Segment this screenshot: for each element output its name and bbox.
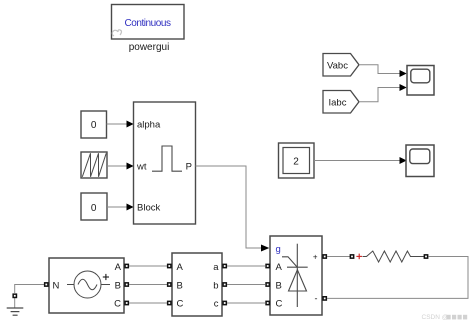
svg-text:B: B	[177, 280, 183, 291]
svg-text:wt: wt	[136, 162, 147, 173]
svg-text:Iabc: Iabc	[329, 98, 347, 109]
svg-text:P: P	[186, 162, 192, 173]
svg-text:alpha: alpha	[137, 120, 161, 131]
svg-text:Block: Block	[137, 203, 160, 214]
svg-text:b: b	[213, 280, 218, 291]
svg-text:2: 2	[293, 157, 299, 168]
svg-text:powergui: powergui	[129, 42, 170, 53]
svg-text:g: g	[276, 244, 281, 255]
svg-text:B: B	[115, 280, 121, 291]
svg-text:A: A	[177, 262, 184, 273]
svg-text:C: C	[177, 299, 184, 310]
svg-text:0: 0	[91, 203, 97, 214]
svg-text:+: +	[313, 253, 318, 262]
svg-text:CSDN @: CSDN @	[422, 314, 449, 321]
svg-text:N: N	[53, 280, 60, 291]
svg-text:c: c	[214, 299, 219, 310]
svg-text:C: C	[276, 299, 283, 310]
svg-text:A: A	[115, 262, 122, 273]
svg-text:0: 0	[91, 120, 97, 131]
svg-text:Vabc: Vabc	[327, 61, 348, 72]
svg-text:A: A	[276, 262, 283, 273]
svg-text:Continuous: Continuous	[124, 18, 171, 29]
svg-text:B: B	[276, 280, 282, 291]
svg-text:C: C	[114, 299, 121, 310]
svg-text:-: -	[315, 294, 318, 304]
svg-text:a: a	[213, 262, 219, 273]
